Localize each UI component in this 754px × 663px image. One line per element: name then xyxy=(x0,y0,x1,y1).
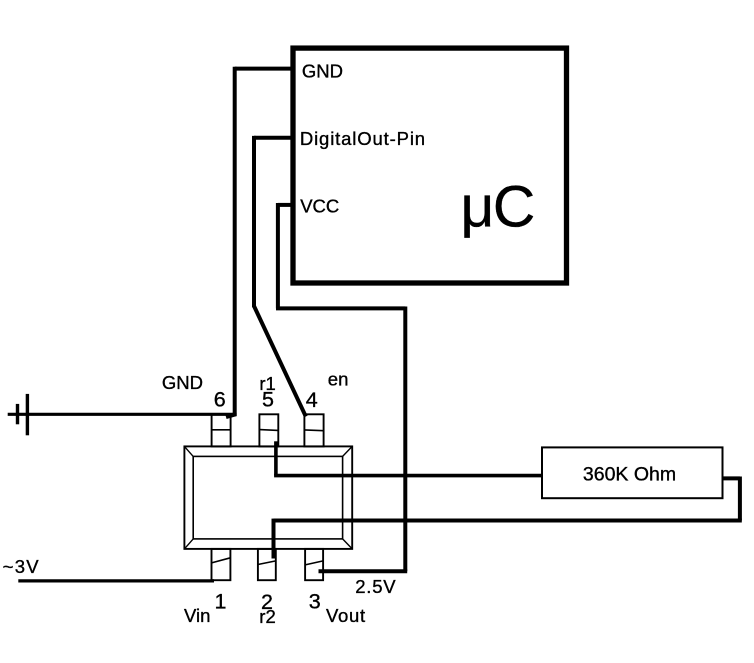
wire: r2 horizontal return xyxy=(274,519,742,523)
wire: GND hook into pin 6 xyxy=(226,414,236,417)
pin 2 rectangle xyxy=(258,549,276,580)
svg-text:6: 6 xyxy=(214,388,226,412)
svg-text:GND: GND xyxy=(162,372,203,393)
svg-text:μC: μC xyxy=(461,174,534,239)
IC U2 bevel bottom-left xyxy=(184,539,193,549)
microcontroller U1 box xyxy=(293,48,567,283)
pin 3 lead bend line xyxy=(305,561,323,565)
wire: resistor return vertical xyxy=(738,477,742,521)
wire: resistor right stub xyxy=(722,476,740,480)
svg-text:~3V: ~3V xyxy=(3,556,40,577)
wire: DigitalOut vertical xyxy=(252,136,256,307)
wire: DigitalOut diagonal to pin 4 (en) xyxy=(254,306,306,417)
pin 3 rectangle xyxy=(305,549,323,580)
svg-text:Vin: Vin xyxy=(184,605,210,626)
wire: r2 vertical into pin 2 xyxy=(272,519,276,559)
pin 5 rectangle xyxy=(259,414,278,446)
resistor R1 box xyxy=(542,447,723,498)
wire: μC GND pin stub xyxy=(235,67,291,71)
svg-text:Vout: Vout xyxy=(326,605,366,626)
wire: battery to pin 6 (GND rail) xyxy=(8,413,237,416)
pin 6 rectangle xyxy=(212,414,231,446)
IC U2 body outer outline (SOT-23-6) xyxy=(184,446,352,549)
svg-text:1: 1 xyxy=(215,590,227,614)
svg-text:r2: r2 xyxy=(259,606,275,627)
pin 6 lead bend line xyxy=(212,429,231,431)
battery B1 long plate xyxy=(26,394,29,435)
svg-text:3: 3 xyxy=(309,590,321,614)
wire: VCC horizontal over to 2.5V net xyxy=(276,306,405,310)
wire: GND net vertical to pin 6 xyxy=(233,67,237,417)
svg-text:5: 5 xyxy=(262,388,274,412)
IC U2 bevel bottom-right xyxy=(343,539,353,549)
battery B1 short plate xyxy=(16,404,19,424)
IC U2 bevel top-right xyxy=(343,446,353,456)
wire: VCC vertical xyxy=(276,203,280,308)
pin 4 rectangle xyxy=(304,414,323,446)
pin 1 lead bend line xyxy=(212,558,231,563)
pin 2 lead bend line xyxy=(258,561,276,565)
svg-text:4: 4 xyxy=(306,388,318,412)
svg-text:360K Ohm: 360K Ohm xyxy=(583,464,676,486)
wire: ~3V supply to pin 1 xyxy=(18,579,214,582)
pin 5 lead bend line xyxy=(259,429,278,432)
wire: μC DigitalOut stub xyxy=(254,136,291,140)
svg-text:en: en xyxy=(328,369,349,390)
wire: μC VCC stub xyxy=(278,203,291,207)
svg-text:DigitalOut-Pin: DigitalOut-Pin xyxy=(300,128,426,149)
svg-text:2.5V: 2.5V xyxy=(355,576,396,597)
svg-text:VCC: VCC xyxy=(300,196,339,217)
pin 1 rectangle xyxy=(212,549,231,580)
pin 4 lead bend line xyxy=(304,429,323,432)
wire: 2.5V net vertical xyxy=(403,307,407,572)
svg-text:GND: GND xyxy=(302,60,343,81)
wire: r1 (pin 5) vertical xyxy=(274,441,278,475)
IC U2 bevel top-left xyxy=(184,446,193,456)
IC U2 body inner outline xyxy=(193,456,342,539)
wire: Vout (pin 3) horizontal xyxy=(319,569,408,573)
wire: r1 horizontal to resistor R1 xyxy=(274,474,542,478)
